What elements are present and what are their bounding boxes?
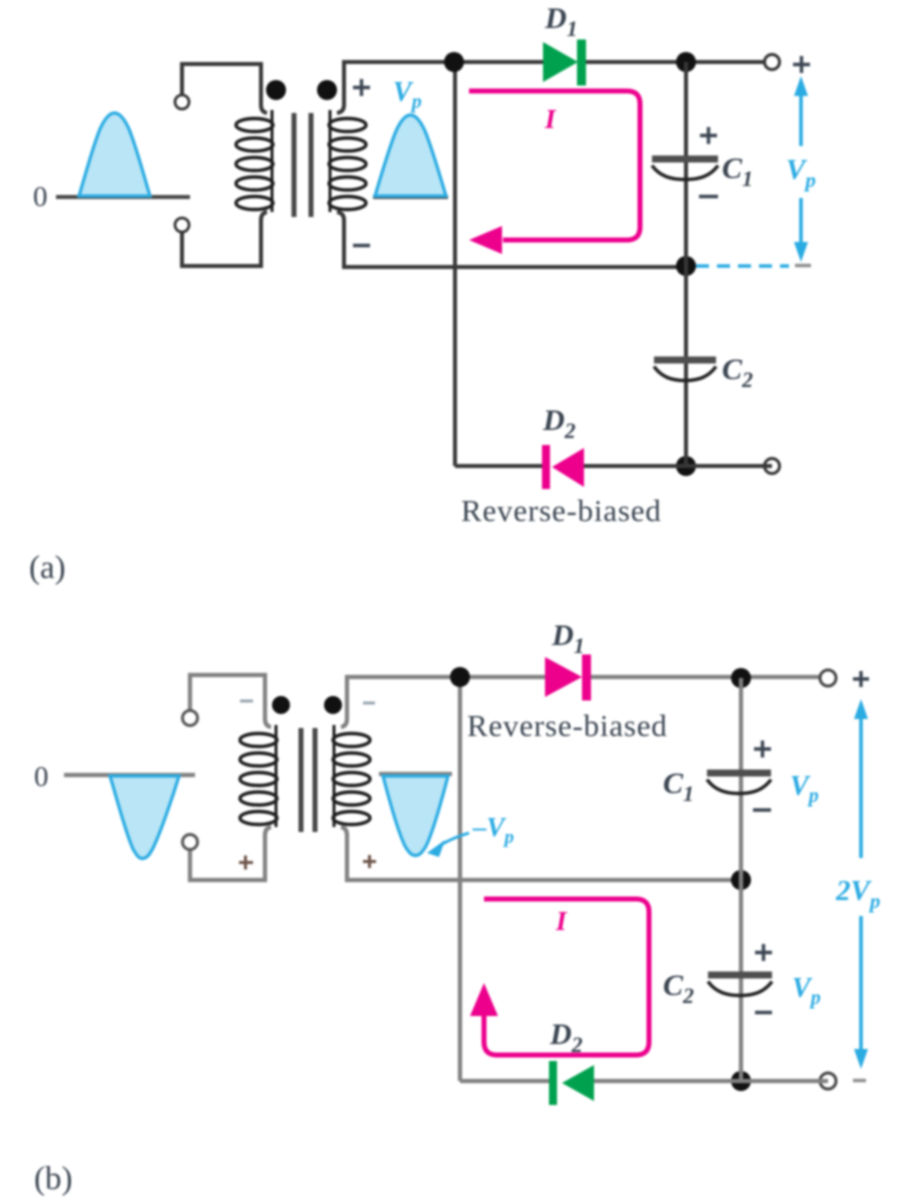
- svg-text:(a): (a): [29, 550, 66, 586]
- svg-text:Reverse-biased: Reverse-biased: [467, 708, 668, 743]
- svg-text:(b): (b): [34, 1161, 72, 1197]
- svg-text:Reverse-biased: Reverse-biased: [461, 493, 662, 528]
- svg-text:0: 0: [34, 761, 49, 793]
- svg-text:I: I: [544, 104, 557, 134]
- svg-text:0: 0: [33, 181, 48, 213]
- svg-text:I: I: [555, 906, 568, 936]
